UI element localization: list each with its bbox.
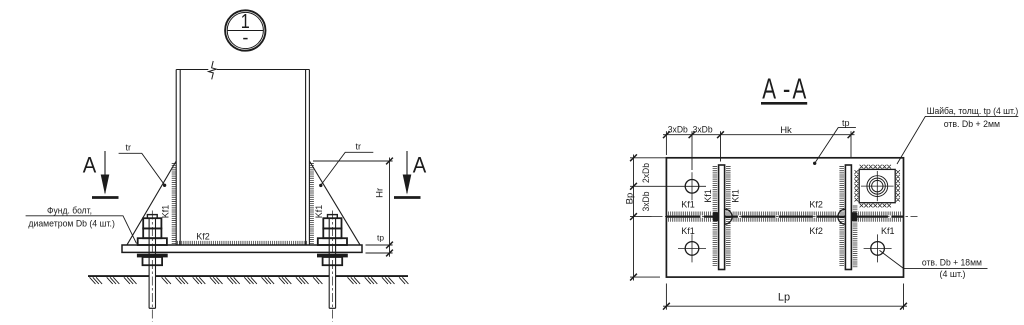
label tp (plan) + leader <box>815 128 856 163</box>
washer plate (square) top-right <box>859 169 895 202</box>
svg-text:Kf1: Kf1 <box>161 205 171 219</box>
ground line <box>88 275 408 277</box>
svg-text:Bp: Bp <box>625 193 636 205</box>
weld junction blob right <box>851 212 857 221</box>
svg-text:2xDb: 2xDb <box>641 163 651 183</box>
detail mark circle 1 <box>225 10 265 50</box>
dimension Lp <box>663 284 907 310</box>
column C1 shaft <box>176 70 309 246</box>
svg-text:Hr: Hr <box>375 188 386 198</box>
svg-text:Kf1: Kf1 <box>681 226 695 236</box>
label tr right + leader <box>321 152 373 184</box>
svg-text:отв. Db + 2мм: отв. Db + 2мм <box>944 119 1000 129</box>
svg-text:отв. Db + 18мм: отв. Db + 18мм <box>922 257 982 267</box>
svg-text:Фунд. болт,: Фунд. болт, <box>47 206 92 216</box>
svg-text:3xDb: 3xDb <box>668 124 688 134</box>
svg-text:tr: tr <box>125 143 131 153</box>
svg-text:Kf1: Kf1 <box>314 205 324 219</box>
column web (plan, thick) <box>666 216 903 218</box>
web-flange fillet arcs left <box>725 209 733 224</box>
svg-text:A: A <box>762 73 776 105</box>
column flange right (plan) <box>845 165 851 270</box>
base plate (plan) <box>666 158 903 277</box>
gusset right (stiffener tr) <box>309 161 360 245</box>
bolt hole bottom-right <box>864 234 892 262</box>
svg-text:Hk: Hk <box>780 125 792 136</box>
svg-text:1: 1 <box>241 11 250 33</box>
weld hatch Kf2 along web <box>669 212 901 216</box>
base plate (elevation) <box>122 245 362 252</box>
svg-text:A: A <box>793 73 807 105</box>
svg-text:Kf1: Kf1 <box>881 226 895 236</box>
svg-text:tr: tr <box>355 142 361 152</box>
svg-text:Lp: Lp <box>778 292 790 304</box>
svg-text:Kf2: Kf2 <box>809 199 823 209</box>
web-flange fillet arcs right <box>838 209 846 224</box>
gusset left (stiffener tr) <box>127 161 176 245</box>
ground hatch <box>90 277 409 284</box>
weld hatch Kf2 (column-to-plate weld) <box>178 241 307 245</box>
web centerline <box>652 216 918 218</box>
weld hatch flange left <box>713 167 718 266</box>
svg-text:Kf1: Kf1 <box>703 189 713 203</box>
dimension column left (2xDb,3xDb,Bp) <box>630 155 678 281</box>
svg-text:A: A <box>83 152 97 177</box>
column flange left (plan) <box>719 165 725 270</box>
bolt hole bottom-left <box>678 234 706 262</box>
label tr left + leader <box>119 153 165 184</box>
svg-text:3xDb: 3xDb <box>641 192 651 212</box>
anchor bolt left <box>137 211 167 322</box>
weld hatch Kf1 left (gusset-to-flange weld) <box>172 164 176 244</box>
section marker A (left) <box>92 151 119 198</box>
svg-text:Kf1: Kf1 <box>731 189 741 203</box>
bolt in washer (top-right) <box>861 171 894 201</box>
svg-text:tp: tp <box>377 232 384 242</box>
svg-text:Шайба, толщ. tp (4 шт.): Шайба, толщ. tp (4 шт.) <box>927 106 1019 116</box>
svg-text:диаметром Db (4 шт.): диаметром Db (4 шт.) <box>28 219 115 229</box>
leader + label washer (Shaiba) <box>897 116 1018 164</box>
leader + label foundation bolt <box>26 216 137 244</box>
svg-text:(4 шт.): (4 шт.) <box>940 269 966 279</box>
weld hatch Kf1 right (gusset-to-flange weld) <box>310 164 314 244</box>
svg-text:-: - <box>783 73 791 105</box>
weld hatch around washer <box>855 165 900 208</box>
svg-text:Kf1: Kf1 <box>681 199 695 209</box>
svg-text:Kf2: Kf2 <box>809 226 823 236</box>
weld hatch flange right <box>839 167 844 266</box>
svg-text:3xDb: 3xDb <box>693 124 713 134</box>
bolt hole top-left <box>678 172 706 200</box>
dimension Hr <box>313 158 393 257</box>
anchor bolt right <box>317 211 347 322</box>
weld junction blob left <box>713 212 719 221</box>
leader + label hole (otv. Db+18mm) <box>880 250 988 268</box>
section marker A (right) <box>394 151 421 198</box>
dimension row top (3xDb,3xDb,Hk) <box>663 131 855 170</box>
svg-text:A: A <box>413 152 427 177</box>
svg-text:Kf2: Kf2 <box>196 232 210 242</box>
break symbol <box>209 61 217 79</box>
svg-text:tp: tp <box>842 118 850 128</box>
